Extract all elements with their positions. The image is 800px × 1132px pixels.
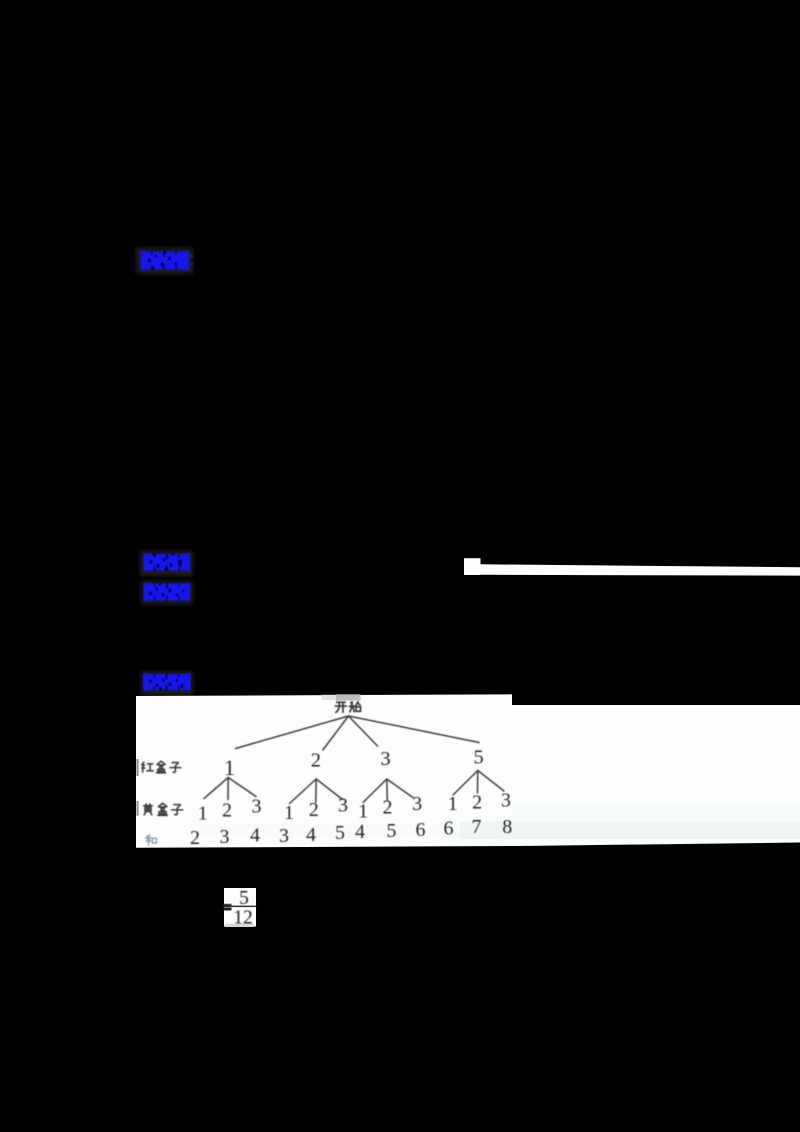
blue label 2 (考点) jpeg halo	[140, 551, 193, 576]
svg-text:2: 2	[222, 800, 232, 822]
svg-text:2: 2	[383, 797, 393, 819]
svg-text:4: 4	[355, 821, 365, 843]
svg-text:1: 1	[358, 801, 368, 823]
svg-text:1: 1	[284, 802, 294, 824]
fan lines group 1	[204, 778, 256, 800]
svg-text:8: 8	[502, 816, 512, 838]
top fan lines from 开始	[236, 716, 480, 750]
和 row label	[146, 835, 157, 845]
svg-text:4: 4	[306, 824, 316, 846]
equals sign	[223, 904, 232, 910]
svg-text:6: 6	[444, 818, 454, 840]
white formula strip to right margin	[480, 564, 800, 575]
blue label 4 (解答)	[143, 673, 190, 690]
svg-text:3: 3	[338, 795, 348, 817]
svg-text:6: 6	[416, 819, 426, 841]
sum values row	[190, 816, 512, 849]
svg-text:3: 3	[501, 789, 511, 811]
faint scan tint rows on band	[512, 806, 800, 822]
gray patch behind 开始	[322, 695, 336, 700]
svg-text:2: 2	[311, 749, 321, 771]
blue label 1 (答案) jpeg halo	[136, 248, 193, 275]
svg-text:7: 7	[472, 816, 482, 838]
svg-text:12: 12	[233, 907, 253, 928]
blue label 3 (分析) jpeg halo	[141, 581, 193, 605]
blue label 3 (分析)	[144, 583, 190, 601]
fraction box bottom gray strip	[225, 924, 254, 927]
svg-text:5: 5	[387, 820, 397, 842]
svg-text:2: 2	[190, 827, 200, 849]
svg-text:3: 3	[220, 826, 230, 848]
svg-text:3: 3	[252, 796, 262, 818]
white band of embedded tree image	[136, 694, 800, 848]
红盒子 row label	[142, 761, 181, 773]
blue label 4 (解答) jpeg halo	[141, 672, 193, 696]
svg-text:3: 3	[380, 748, 390, 770]
开始 label	[335, 702, 360, 713]
svg-text:1: 1	[448, 793, 458, 815]
yellow box values rows	[198, 789, 511, 824]
svg-text:3: 3	[412, 793, 422, 815]
svg-text:5: 5	[335, 822, 345, 844]
svg-text:5: 5	[473, 747, 483, 769]
fan lines group 2	[290, 779, 343, 804]
blue label 1 (答案)	[141, 251, 193, 270]
svg-text:3: 3	[279, 825, 289, 847]
黄盒子 row label	[144, 803, 183, 815]
svg-text:1: 1	[198, 803, 208, 825]
fan lines group 4	[453, 771, 504, 796]
left edge tick row1	[136, 759, 138, 776]
fraction bar	[224, 906, 257, 908]
svg-text:2: 2	[472, 792, 482, 814]
fraction white box	[224, 888, 256, 927]
svg-text:4: 4	[250, 825, 260, 847]
fan lines group 3	[363, 779, 413, 803]
white strip bump (left end of formula strip)	[464, 558, 481, 575]
svg-text:2: 2	[309, 799, 319, 821]
svg-text:1: 1	[224, 755, 235, 780]
blue label 2 (考点)	[144, 553, 190, 571]
red box values 1 2 3 5	[224, 747, 484, 780]
left edge tick row2	[137, 801, 139, 816]
